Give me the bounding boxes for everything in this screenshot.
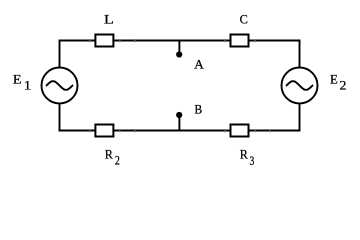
svg-text:A: A xyxy=(194,56,204,71)
svg-text:E: E xyxy=(13,72,22,87)
svg-text:3: 3 xyxy=(250,153,255,168)
svg-text:R: R xyxy=(240,147,248,162)
svg-text:E: E xyxy=(330,72,338,87)
svg-text:2: 2 xyxy=(340,78,347,93)
svg-text:B: B xyxy=(195,102,203,117)
svg-text:2: 2 xyxy=(115,153,120,168)
svg-text:L: L xyxy=(104,12,114,27)
svg-text:R: R xyxy=(105,147,113,162)
svg-text:1: 1 xyxy=(24,78,32,93)
svg-text:C: C xyxy=(240,11,248,26)
